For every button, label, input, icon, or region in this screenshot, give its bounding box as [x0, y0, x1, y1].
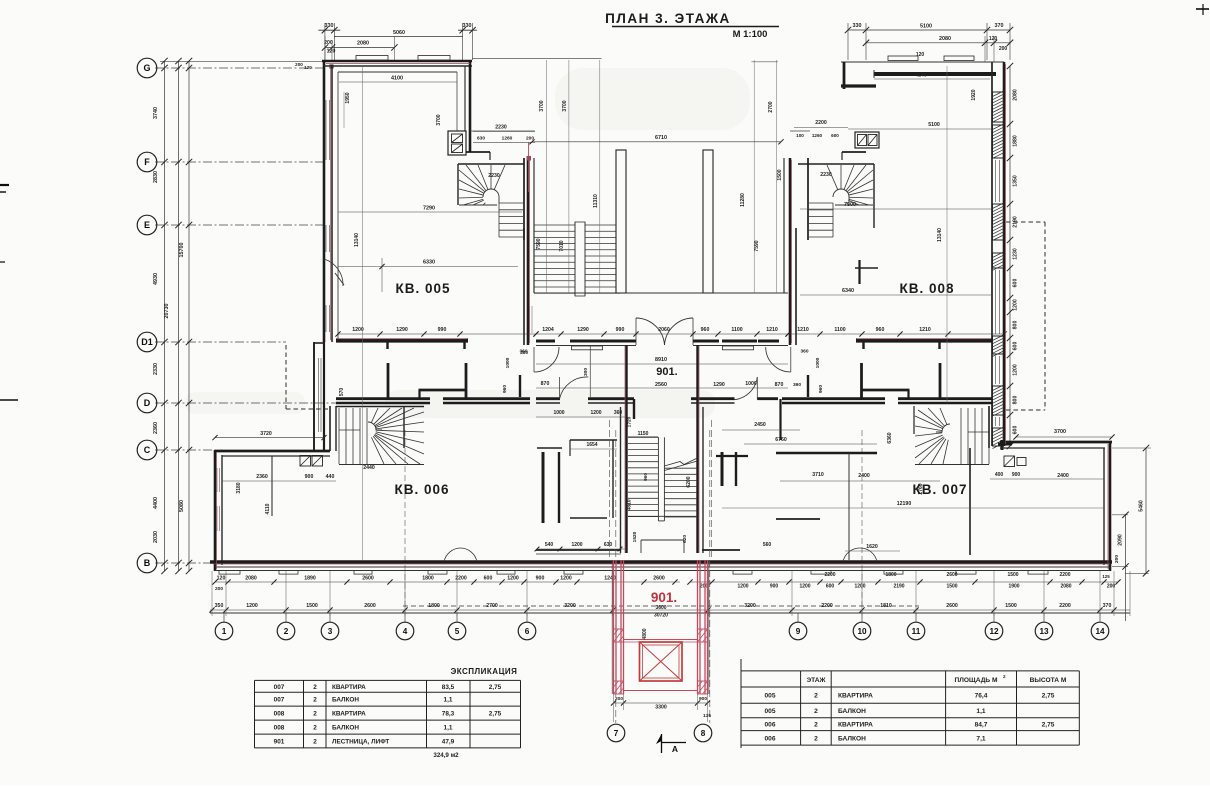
interior dim 7290 KV005 [338, 206, 522, 213]
svg-text:2450: 2450 [754, 422, 766, 428]
svg-text:390: 390 [793, 382, 801, 388]
svg-text:ПЛАН 3. ЭТАЖА: ПЛАН 3. ЭТАЖА [605, 11, 731, 26]
wall: courtyard-facing wall of left wing [524, 158, 534, 345]
small hatched boxes at KV006 junction [300, 456, 323, 467]
svg-text:960: 960 [876, 327, 885, 333]
svg-text:1150: 1150 [638, 431, 649, 437]
svg-text:2230: 2230 [488, 173, 500, 179]
svg-text:1200: 1200 [560, 576, 572, 582]
svg-text:КВ. 005: КВ. 005 [395, 281, 450, 296]
svg-text:120: 120 [327, 49, 336, 55]
hall side door arc right [766, 347, 791, 372]
svg-text:1200: 1200 [1013, 299, 1019, 311]
svg-text:370: 370 [995, 23, 1004, 29]
svg-text:1200: 1200 [854, 584, 865, 590]
grid bubble 12 [985, 622, 1003, 640]
lift shaft boxes KV008 [855, 132, 879, 148]
grid bubble G [137, 58, 157, 78]
dim 1620 KV007 [845, 544, 900, 551]
svg-text:2360: 2360 [256, 474, 268, 480]
apartment door arc KV007 at corridor [735, 377, 758, 400]
svg-text:1654: 1654 [586, 442, 597, 448]
corner mark top-right [1196, 4, 1209, 15]
svg-text:2080: 2080 [245, 576, 257, 582]
svg-text:1100: 1100 [731, 327, 742, 333]
faint scan smudges [185, 68, 750, 418]
bottom extension verticals [212, 571, 1130, 616]
left dimension numbers [153, 107, 185, 543]
grid bubble D1 [137, 332, 157, 352]
svg-text:440: 440 [326, 474, 335, 480]
interior walls KV008 lower rooms [800, 349, 940, 399]
grid axis lines (dash-dot) for rows G F E D1 D C B [155, 68, 338, 563]
svg-text:F: F [144, 157, 150, 167]
thick wall mass left of corridor (KV006 side) [537, 448, 562, 523]
svg-text:3700: 3700 [1054, 429, 1066, 435]
svg-text:200: 200 [324, 40, 333, 46]
outer wall: lower block top-right wall [1000, 442, 1112, 448]
svg-text:1350: 1350 [1013, 175, 1019, 187]
svg-text:3710: 3710 [812, 472, 824, 478]
svg-text:1720: 1720 [627, 416, 633, 427]
red lift box with X [640, 642, 683, 681]
svg-text:2400: 2400 [858, 473, 870, 479]
shaft dims 3600 30720 4800 [642, 605, 668, 640]
svg-text:3: 3 [328, 627, 333, 636]
wall at D line right (bottom of mid rooms, right) [782, 399, 992, 403]
svg-text:1210: 1210 [766, 327, 778, 333]
svg-text:200: 200 [215, 586, 223, 592]
svg-text:БАЛКОН: БАЛКОН [838, 735, 866, 742]
courtyard stair treads (left) [534, 222, 620, 296]
svg-text:20730: 20730 [164, 304, 170, 319]
svg-text:КВ. 007: КВ. 007 [912, 482, 967, 497]
grid bubble 10 [853, 622, 871, 640]
explication table [255, 680, 521, 748]
svg-text:1200: 1200 [590, 410, 601, 416]
svg-text:3740: 3740 [153, 107, 159, 119]
svg-text:2: 2 [313, 725, 317, 732]
svg-text:900: 900 [536, 576, 545, 582]
svg-text:6710: 6710 [655, 135, 667, 141]
svg-text:2: 2 [814, 722, 818, 729]
svg-text:7300: 7300 [844, 202, 856, 208]
svg-text:330: 330 [853, 23, 862, 29]
svg-text:900: 900 [699, 696, 707, 702]
balcony door arc on left wall [324, 259, 344, 286]
svg-text:2200: 2200 [815, 120, 827, 126]
svg-text:КВАРТИРА: КВАРТИРА [838, 722, 873, 729]
svg-text:2190: 2190 [893, 584, 904, 590]
interior dim 4100 KV005 [339, 76, 457, 83]
svg-text:11280: 11280 [740, 193, 746, 207]
fan staircase KV005 [459, 165, 523, 237]
bottom dimension row 1 (upper, left half) [212, 576, 680, 593]
entry door arcs on bottom wall (KV007) [843, 548, 877, 562]
svg-text:13140: 13140 [937, 228, 943, 242]
svg-text:1920: 1920 [971, 89, 977, 100]
svg-text:1000: 1000 [553, 410, 564, 416]
svg-text:4800: 4800 [642, 628, 648, 639]
svg-text:600: 600 [1013, 342, 1019, 351]
svg-text:5100: 5100 [928, 122, 940, 128]
wall: KV008 stair top wall [798, 152, 874, 240]
small hatched boxes at KV007 junction [1004, 456, 1026, 467]
interior dim 6330 KV005 [338, 260, 518, 267]
svg-text:600: 600 [831, 133, 839, 138]
svg-text:1950: 1950 [345, 92, 351, 103]
svg-text:БАЛКОН: БАЛКОН [838, 708, 866, 715]
window sills on top wall right wing [888, 56, 974, 61]
right dimension chain along right wing wall [1007, 63, 1019, 449]
svg-text:1,1: 1,1 [444, 697, 453, 704]
svg-text:3700: 3700 [562, 100, 568, 111]
svg-text:200: 200 [999, 46, 1008, 52]
hall side door arc left [534, 347, 559, 372]
svg-text:E: E [144, 220, 150, 230]
svg-text:1520: 1520 [632, 531, 638, 542]
svg-text:5060: 5060 [393, 30, 405, 36]
svg-text:900: 900 [770, 584, 779, 590]
red shaft: cross ties [624, 640, 698, 691]
wall: courtyard-facing wall of right wing [784, 158, 796, 345]
svg-text:ЭКСПЛИКАЦИЯ: ЭКСПЛИКАЦИЯ [451, 667, 518, 676]
svg-text:990: 990 [438, 327, 447, 333]
svg-text:560: 560 [763, 542, 772, 548]
svg-text:120: 120 [304, 65, 312, 70]
top dimension row left wing: 200 2080 [322, 36, 398, 62]
svg-text:9: 9 [796, 627, 801, 636]
svg-text:2200: 2200 [1059, 572, 1070, 578]
svg-text:600: 600 [1013, 279, 1019, 288]
svg-text:4400: 4400 [153, 497, 159, 509]
svg-text:1000: 1000 [815, 357, 821, 368]
svg-text:1500: 1500 [306, 603, 318, 609]
wall: upper-right wing notch left wall [790, 62, 810, 152]
svg-text:4110: 4110 [265, 503, 271, 514]
svg-text:14: 14 [1095, 627, 1105, 636]
svg-text:78,3: 78,3 [442, 711, 455, 718]
svg-text:2,75: 2,75 [1042, 693, 1055, 700]
svg-text:2360: 2360 [153, 422, 159, 434]
red accent lines along main walls [213, 64, 1110, 570]
central stair treads [628, 437, 697, 553]
grid bubble 2 [277, 622, 295, 640]
svg-text:2: 2 [313, 738, 317, 745]
grid bubble 14 [1091, 622, 1109, 640]
svg-text:А: А [672, 744, 678, 754]
svg-text:600: 600 [826, 584, 835, 590]
top dimension row left wing: 330 5060 330 [318, 23, 477, 60]
svg-text:1500: 1500 [777, 169, 783, 180]
svg-text:2600: 2600 [364, 603, 376, 609]
svg-text:540: 540 [545, 542, 554, 548]
svg-text:2030: 2030 [153, 531, 159, 543]
grid bubble C [137, 440, 157, 460]
svg-text:5: 5 [455, 627, 460, 636]
grid bubble 1 [215, 622, 233, 640]
thick wall mass right of corridor (KV007 side) [716, 452, 748, 486]
svg-text:2: 2 [313, 697, 317, 704]
svg-text:2: 2 [814, 708, 818, 715]
central stair shaft walls [621, 345, 704, 553]
svg-text:2600: 2600 [946, 603, 958, 609]
svg-text:D1: D1 [141, 337, 153, 347]
vertical partition at 300 line in hall [583, 346, 781, 440]
svg-text:125: 125 [1102, 574, 1110, 579]
svg-text:960: 960 [502, 385, 508, 393]
corner pier square top-left [330, 65, 334, 69]
svg-text:7590: 7590 [536, 238, 542, 249]
red shaft: hatched squares [614, 629, 708, 694]
svg-text:2080: 2080 [357, 41, 369, 47]
svg-text:800: 800 [1013, 396, 1019, 405]
svg-text:11310: 11310 [593, 194, 599, 208]
svg-text:006: 006 [764, 735, 775, 742]
svg-text:2060: 2060 [658, 327, 670, 333]
window sills on top wall left wing [356, 56, 450, 61]
svg-text:1000: 1000 [505, 357, 511, 368]
svg-text:1200: 1200 [352, 327, 364, 333]
svg-text:008: 008 [274, 725, 285, 732]
corridor walls at D line [536, 399, 778, 403]
bottom main dimension line [210, 612, 1130, 614]
interior walls KV007 [776, 448, 974, 560]
svg-text:D: D [144, 398, 151, 408]
dimension row 540 1200 630 (left of stair) [535, 542, 772, 551]
wall: KV005 bottom wall (D1) [336, 341, 468, 350]
outer wall: lower block left wall [215, 450, 222, 571]
svg-text:600: 600 [1013, 426, 1019, 435]
edge artifacts left margin [0, 185, 18, 400]
wall: KV008 bottom wall (D1) [856, 341, 992, 350]
svg-text:C: C [144, 445, 151, 455]
corner mini labels 200 120 [295, 62, 312, 70]
svg-text:6200: 6200 [686, 476, 692, 487]
svg-text:330: 330 [463, 23, 472, 29]
dim 3720 left block [212, 431, 326, 440]
svg-text:870: 870 [775, 382, 784, 388]
svg-text:1800: 1800 [422, 576, 434, 582]
svg-text:100: 100 [796, 133, 804, 138]
grid bubble 4 [396, 622, 414, 640]
svg-text:5080: 5080 [179, 500, 185, 512]
svg-text:1200: 1200 [571, 542, 582, 548]
svg-text:3300: 3300 [655, 705, 667, 711]
svg-text:350: 350 [215, 603, 224, 609]
svg-text:2: 2 [814, 693, 818, 700]
grid bubble E [137, 215, 157, 235]
dimension row KV007 (400 900 2400) [780, 429, 1115, 495]
svg-text:ВЫСОТА М: ВЫСОТА М [1030, 677, 1067, 684]
svg-text:КВАРТИРА: КВАРТИРА [332, 711, 366, 718]
svg-text:870: 870 [541, 381, 550, 387]
svg-text:2440: 2440 [363, 465, 375, 471]
svg-text:12190: 12190 [897, 501, 912, 507]
grid bubble 7 [607, 724, 625, 742]
outer wall: lower block top-left wall (C line) [215, 451, 330, 456]
svg-text:006: 006 [764, 722, 775, 729]
courtyard pilaster column left [616, 150, 626, 293]
svg-text:ЭТАЖ: ЭТАЖ [806, 677, 825, 684]
svg-text:2080: 2080 [1013, 89, 1019, 101]
outer wall: lower block bottom wall [210, 562, 1112, 571]
svg-text:1,1: 1,1 [976, 708, 985, 715]
svg-text:2080: 2080 [939, 36, 951, 42]
svg-text:КВ. 008: КВ. 008 [899, 281, 954, 296]
svg-text:1: 1 [222, 627, 227, 636]
grid extension lines to bottom bubbles [224, 430, 1100, 622]
svg-text:300: 300 [583, 368, 589, 376]
svg-text:3180: 3180 [236, 482, 242, 493]
outer wall: upper-right wing right wall with hatching [992, 62, 1012, 450]
svg-text:120: 120 [916, 52, 925, 58]
svg-text:М 1:100: М 1:100 [733, 29, 768, 40]
fan staircase KV008 [809, 165, 873, 237]
lift shaft boxes KV005 [448, 131, 466, 155]
svg-text:1500: 1500 [946, 584, 957, 590]
svg-text:8: 8 [701, 729, 706, 738]
svg-text:960: 960 [818, 385, 824, 393]
svg-text:6760: 6760 [775, 437, 787, 443]
dashed balcony outline right [1006, 222, 1045, 410]
grid bubble B [137, 553, 157, 573]
svg-text:2400: 2400 [1057, 473, 1069, 479]
svg-text:83,5: 83,5 [442, 684, 455, 691]
svg-text:135: 135 [703, 713, 711, 719]
svg-text:005: 005 [764, 693, 775, 700]
wall: KV007 stair enclosure [914, 406, 989, 448]
grid bubble D [137, 393, 157, 413]
svg-text:4930: 4930 [153, 273, 159, 285]
courtyard top extension line [472, 59, 778, 62]
svg-text:630: 630 [477, 136, 485, 142]
svg-text:2: 2 [313, 684, 317, 691]
svg-text:ЛЕСТНИЦА, ЛИФТ: ЛЕСТНИЦА, ЛИФТ [332, 738, 389, 745]
svg-text:1290: 1290 [396, 327, 408, 333]
svg-text:324,9 м2: 324,9 м2 [433, 752, 459, 759]
right table [741, 659, 1079, 748]
svg-text:1890: 1890 [304, 576, 316, 582]
dim 6760 13190 KV007 [722, 422, 1104, 519]
svg-text:1500: 1500 [1005, 603, 1017, 609]
grid bubble 11 [907, 622, 925, 640]
entry door arcs on bottom wall (KV006) [444, 548, 477, 562]
svg-text:2600: 2600 [362, 576, 374, 582]
svg-text:1500: 1500 [1007, 572, 1018, 578]
svg-text:2830: 2830 [153, 171, 159, 183]
outer wall: upper-right wing top wall [841, 62, 1004, 89]
svg-text:7: 7 [614, 729, 619, 738]
grid bubble 5 [448, 622, 466, 640]
svg-text:1290: 1290 [713, 382, 725, 388]
svg-text:2090: 2090 [1118, 534, 1124, 546]
svg-text:2080: 2080 [1060, 584, 1071, 590]
grid bubble 8 [694, 724, 712, 742]
svg-text:15700: 15700 [179, 243, 185, 258]
svg-text:960: 960 [643, 473, 649, 481]
left dimension chain lines [160, 58, 324, 574]
svg-text:ПЛОЩАДЬ М: ПЛОЩАДЬ М [955, 677, 998, 684]
svg-text:76,4: 76,4 [975, 693, 988, 700]
svg-text:47,9: 47,9 [442, 738, 455, 745]
svg-text:4100: 4100 [391, 76, 403, 82]
extension tick on 6330 line [379, 258, 384, 292]
stair dimension labels (1150 6200 4810) [627, 416, 693, 543]
section arrow A [656, 734, 686, 754]
window sills under entrance wall [572, 346, 754, 350]
svg-text:370: 370 [1103, 603, 1112, 609]
svg-text:3700: 3700 [539, 100, 545, 111]
svg-text:2230: 2230 [495, 125, 507, 131]
svg-text:900: 900 [305, 474, 314, 480]
dimension row D1 left wing (1200 1290 990) [335, 327, 538, 337]
svg-text:5100: 5100 [920, 24, 932, 30]
svg-text:200: 200 [1114, 555, 1120, 563]
svg-text:2230: 2230 [820, 172, 832, 178]
svg-text:1200: 1200 [1013, 364, 1019, 376]
grid bubble 9 [789, 622, 807, 640]
svg-text:1210: 1210 [797, 327, 809, 333]
courtyard dim labels 3700 3700 11310 11280 7590 [536, 60, 783, 293]
svg-text:990: 990 [616, 327, 625, 333]
svg-text:600: 600 [484, 576, 493, 582]
svg-text:2: 2 [284, 627, 289, 636]
courtyard pilaster column right [703, 150, 713, 293]
grid bubble 13 [1035, 622, 1053, 640]
svg-text:2200: 2200 [1059, 603, 1071, 609]
svg-text:2600: 2600 [653, 576, 665, 582]
svg-text:2330: 2330 [153, 363, 159, 375]
svg-text:1200: 1200 [737, 584, 748, 590]
svg-text:7590: 7590 [754, 240, 760, 251]
outer wall: upper-left wing top wall [322, 61, 472, 72]
svg-text:4140: 4140 [915, 73, 927, 79]
interior dim 7300 and 6340 KV008 [800, 66, 992, 403]
wall: KV006 stair enclosure [330, 406, 424, 451]
svg-text:620: 620 [682, 535, 688, 543]
svg-text:1230: 1230 [1013, 248, 1019, 260]
svg-text:007: 007 [274, 697, 285, 704]
svg-text:11: 11 [912, 627, 921, 636]
svg-text:КВАРТИРА: КВАРТИРА [332, 684, 366, 691]
svg-text:30720: 30720 [654, 613, 668, 619]
svg-text:1880: 1880 [1013, 135, 1019, 147]
svg-text:1200: 1200 [246, 603, 258, 609]
svg-text:7290: 7290 [423, 206, 435, 212]
courtyard dim 6710 [529, 135, 783, 144]
outer wall: lower block right wall [1104, 442, 1110, 571]
dimension row D1 right wing (1210 1100 960) [785, 327, 1006, 337]
svg-text:120: 120 [217, 576, 226, 582]
svg-text:84,7: 84,7 [975, 722, 988, 729]
svg-text:1620: 1620 [866, 544, 878, 550]
bottom dashed line overlay [403, 605, 919, 607]
wall: upper-left wing notch right wall [457, 61, 470, 152]
svg-text:901: 901 [274, 738, 285, 745]
red shaft: left column [614, 560, 624, 694]
courtyard floor line [534, 292, 788, 294]
fan staircase KV006 [339, 408, 424, 471]
svg-text:2: 2 [814, 735, 818, 742]
svg-text:1204: 1204 [542, 327, 554, 333]
apartment door arc KV006 at corridor [560, 377, 589, 399]
svg-text:4810: 4810 [627, 499, 633, 510]
svg-text:7010: 7010 [559, 240, 565, 251]
top dimension row right wing: 330 5100 370 [845, 23, 1013, 60]
vertical extension line 13140 left [344, 66, 363, 560]
svg-text:6: 6 [525, 627, 530, 636]
